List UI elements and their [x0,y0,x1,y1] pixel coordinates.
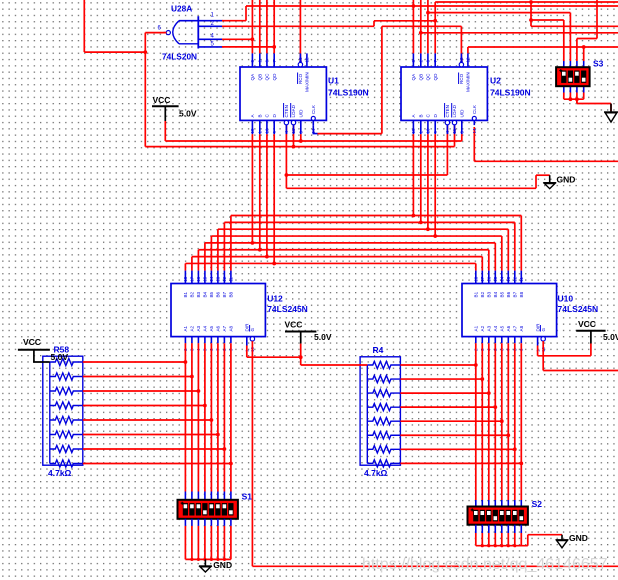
svg-text:11: 11 [452,128,457,133]
junction [433,234,437,238]
resistor network R58 4.7k [43,356,83,465]
svg-text:VCC: VCC [578,319,596,329]
S1 bottom pin stubs [185,519,231,526]
svg-text:A1: A1 [183,325,188,331]
junction [500,544,503,547]
ground GND2 below S1 [199,559,212,572]
wire bus right drop 6 [488,250,490,271]
wire bus left drop 4 [210,236,212,271]
wire bus right drop 7 [481,257,483,271]
wire bus left drop 8 [184,263,186,270]
junction [190,558,193,561]
wire gate pin1 [222,20,246,22]
wire U1 U/D stub [300,134,302,141]
svg-text:A2: A2 [480,325,485,331]
svg-text:B8: B8 [519,291,524,297]
wire U10 G to right edge [543,370,618,372]
switch S2 DIP [468,507,528,525]
counter U2 74LS190N [401,67,487,120]
svg-text:B: B [419,114,424,117]
svg-text:B6: B6 [216,291,221,297]
svg-text:CTEN: CTEN [284,105,289,118]
wire [83,390,199,392]
wire [367,390,400,397]
svg-text:RCO: RCO [298,73,303,84]
svg-text:74LS190N: 74LS190N [490,88,531,98]
junction U2 QB [419,31,423,35]
wire U1 CTEN down [285,125,287,188]
svg-text:11: 11 [291,128,296,133]
svg-text:GND: GND [569,533,588,543]
wire pin1 riser [245,6,247,21]
svg-text:5: 5 [460,131,465,134]
wire VCC4 to U10 DIR [538,355,591,357]
svg-text:QA: QA [411,73,416,81]
junction [487,391,491,395]
wire U10 A7 to S2 [514,343,516,500]
svg-text:QD: QD [272,73,277,81]
svg-text:17: 17 [190,276,195,282]
wire U1 C to bus [266,134,268,257]
wire U2 QD vertical [434,2,436,53]
wire U10 A3 to S2 [488,343,490,500]
svg-text:GND: GND [213,560,232,570]
wire U12 A4 to S1 [204,343,206,491]
wire S3 bottom [583,93,585,100]
svg-text:11: 11 [519,277,524,282]
svg-text:74LS190N: 74LS190N [328,88,369,98]
svg-text:3: 3 [250,60,255,63]
wire bus left drop 6 [197,250,199,271]
U1 pin numbers [250,57,316,134]
wire U2 B to bus [420,134,422,222]
wire U12 A2 to S1 [191,343,193,491]
junction on gate output net [143,50,147,54]
wire [83,405,205,407]
svg-text:R4: R4 [373,345,384,355]
wire gate output vertical [144,33,146,147]
U10 pin stubs [476,271,546,346]
wire bus right drop 5 [494,243,496,271]
svg-text:6: 6 [426,60,431,63]
svg-text:VCC: VCC [23,337,41,347]
wire [400,364,475,366]
wire S2 pin to ground bus [501,533,503,546]
wire [83,448,225,450]
ground GND4 near S3 [604,104,618,123]
junction [426,227,430,231]
svg-text:G: G [250,328,255,332]
svg-text:9: 9 [433,131,438,134]
wire S3 pin1 drop [563,20,565,61]
wire into GND [610,104,612,112]
U10 pin numbers [474,276,546,352]
wire U2 CTEN down [446,125,448,175]
svg-text:U12: U12 [267,294,283,304]
wire U10 A1 to S2 [475,343,477,500]
wire S1 pin to ground bus [197,526,199,560]
wire U1 A to bus [251,134,253,243]
wire from top edge down at x=84 [83,0,85,52]
wire riser at x=531 [530,2,532,26]
ground GND3 right of S2 [556,535,569,548]
svg-text:B4: B4 [493,291,498,297]
junction [184,360,188,364]
wire [50,402,83,409]
wire S3 bottom [569,93,571,100]
wire bus right drop 3 [507,229,509,270]
svg-text:16: 16 [196,276,201,282]
svg-text:A1: A1 [474,325,479,331]
wire U1 RCO to top edge [299,0,301,62]
svg-text:5.0V: 5.0V [51,352,69,362]
svg-text:MAX/MIN: MAX/MIN [305,72,310,92]
wire U12 A6 to S1 [217,343,219,491]
wire pin2 step [373,21,375,27]
junction [494,544,497,547]
junction U2 QA [412,4,416,8]
wire U2 RCO vertical [460,26,462,62]
svg-text:13: 13 [298,57,303,63]
wire to S3 pin3 [577,38,597,40]
svg-text:A2: A2 [190,325,195,331]
wire to gate output bubble [145,32,166,34]
wire S1 ground bus [185,558,231,560]
wire U12 DIR to VCC3 [247,356,301,358]
wire [576,99,578,103]
wire U12 A1 to S1 [184,343,186,491]
svg-text:15: 15 [411,128,416,134]
svg-text:U2: U2 [490,76,501,86]
junction [513,447,517,451]
svg-text:12: 12 [466,57,471,63]
svg-text:6: 6 [265,60,270,63]
svg-text:74LS20N: 74LS20N [162,52,197,62]
wire [198,38,222,40]
wire S2 pin to ground bus [494,533,496,546]
wire pin1 net to right edge [246,5,618,7]
wire S2 pin to ground bus [507,533,509,546]
svg-text:B2: B2 [190,291,195,297]
U2 pin stubs and bubbles [413,53,476,134]
wire bus left drop 7 [191,257,193,271]
wire [198,25,222,27]
wire U10 A6 to S2 [507,343,509,500]
wire cascade to U1 CLK [318,133,382,135]
wire U10 A4 to S2 [494,343,496,500]
wire U2 LOAD stub [454,125,456,147]
U1 pin stubs and bubbles [252,53,315,134]
wire [50,445,83,452]
wire LOAD rail y=146.6 [145,146,454,148]
wire into GND1 [536,174,550,176]
junction [216,433,220,437]
U12 pin numbers [183,276,255,352]
wire to S3 pin1 [531,19,564,21]
junction [203,404,207,408]
junction [419,220,423,224]
wire U1 QD to top edge [273,0,275,53]
junction [229,462,233,466]
svg-text:S1: S1 [242,492,253,502]
svg-text:14: 14 [500,276,505,282]
wire [198,46,222,48]
wire U1 QC to top edge [266,0,268,53]
svg-text:2: 2 [258,60,263,63]
wire VCC4 down [590,344,592,356]
wire [83,463,231,465]
wire S1 pin to ground bus [210,526,212,560]
junction U1 CTEN [285,173,289,177]
wire from VCC1 down [164,121,166,141]
svg-text:5.0V: 5.0V [179,109,197,119]
wire bus line 4 [211,235,501,237]
wire [367,404,400,411]
wire S1 pin to ground bus [204,526,206,560]
svg-text:A7: A7 [513,325,518,331]
wire CTEN rail y=175 [286,174,447,176]
power VCC1 5.0V [152,106,179,121]
wire [367,361,400,368]
wire bus left drop 3 [217,229,219,270]
wire VCC3 to R4 [301,364,368,366]
switch S3 pin stubs [564,61,584,93]
wire [400,392,488,394]
svg-text:LOAD: LOAD [452,104,457,117]
wire U2 MAXMIN riser [467,47,469,53]
U10 internal pin labels [474,291,546,331]
junction U2 QC [426,11,430,15]
svg-text:13: 13 [506,276,511,282]
wire [367,460,400,467]
wire S2 pin to ground bus [481,533,483,546]
svg-text:https://blog.csdn.net/qq_46146: https://blog.csdn.net/qq_46146657 [362,556,608,573]
svg-text:13: 13 [216,276,221,282]
wire U2 QD net to right edge [435,1,618,3]
wire S2 ground bus [476,545,528,547]
wire [34,361,50,362]
junction [223,558,226,561]
junction [258,248,262,252]
wire gate pin2 [222,25,374,27]
svg-text:VCC: VCC [153,95,171,105]
svg-text:10: 10 [265,128,270,134]
svg-text:A7: A7 [222,325,227,331]
svg-text:9: 9 [272,131,277,134]
wire U12 DIR down [246,346,248,358]
wire bus line 8 [185,262,475,264]
wire S2 pin to ground bus [475,533,477,546]
wire [83,434,218,436]
wire bus left drop 2 [223,222,225,270]
power VCC3 5.0V near U12 [285,332,316,344]
resistor network R4 4.7k [360,357,400,465]
wire bus right drop 1 [520,216,522,271]
wire to right edge y=26 [531,25,618,27]
svg-text:14: 14 [209,276,214,282]
svg-text:VCC: VCC [285,320,303,330]
svg-text:A4: A4 [203,325,208,331]
junction S3 pin4 [582,45,586,49]
svg-text:B5: B5 [500,291,505,297]
svg-text:DIR: DIR [245,323,250,332]
svg-text:15: 15 [203,276,208,282]
wire U12 A8 to S1 [230,343,232,491]
wire U2 A to bus [412,134,414,215]
svg-text:QB: QB [258,74,263,81]
wire [400,462,521,464]
svg-text:B8: B8 [229,291,234,297]
svg-text:U/D: U/D [299,109,304,118]
wire S2 pin to ground bus [514,533,516,546]
svg-text:A8: A8 [519,325,524,331]
wire U2 U/D stub [461,134,463,141]
wire U12 A5 to S1 [210,343,212,491]
svg-text:4.7kΩ: 4.7kΩ [48,468,72,478]
svg-text:18: 18 [474,276,479,282]
svg-text:S2: S2 [532,499,543,509]
svg-text:5.0V: 5.0V [603,332,618,342]
U12 internal pin labels [183,291,255,331]
svg-text:7: 7 [433,60,438,63]
R4 common bus [366,365,368,463]
svg-text:1: 1 [419,131,424,134]
svg-text:15: 15 [250,128,255,134]
wire bus right drop 4 [501,236,503,271]
junction [513,544,516,547]
junction [216,558,219,561]
svg-text:15: 15 [493,276,498,282]
junction [190,375,194,379]
wire S1 pin to ground bus [184,526,186,560]
wire [50,373,83,380]
wire S2 pin to ground bus [488,533,490,546]
wire U12 A3 to S1 [197,343,199,491]
wire S3 bottom [576,93,578,104]
wire ground rail step up [535,175,537,188]
wire bus line 3 [218,228,508,230]
wire VCC3 down [300,344,302,365]
svg-text:12: 12 [513,276,518,282]
junction [474,363,478,367]
svg-text:17: 17 [480,276,485,282]
svg-text:GND: GND [557,175,576,185]
junction U2 QD [433,19,437,23]
wire S1 pin to ground bus [217,526,219,560]
svg-text:7: 7 [272,60,277,63]
wire [400,420,501,422]
svg-text:RCO: RCO [459,73,464,84]
svg-text:12: 12 [305,57,310,63]
wire gate pin4 to U1 QA [222,38,252,40]
svg-text:B7: B7 [513,291,518,297]
svg-text:18: 18 [183,276,188,282]
junction [197,389,201,393]
wire VCC rail y=141 [165,140,462,142]
wire bus line 5 [205,242,495,244]
wire U1 QB to top edge [259,0,261,53]
wire U10 A2 to S2 [481,343,483,500]
S2 bottom pin stubs [476,525,522,533]
wire [179,20,223,22]
wire bus left drop 1 [230,216,232,271]
svg-text:U1: U1 [328,76,339,86]
wire S2 to GND3 [528,534,562,536]
junction [481,544,484,547]
wire U2 MAXMIN to right edge [468,46,618,48]
svg-text:B1: B1 [183,291,188,297]
gate U28A 74LS20N 4-input NAND (mirrored) [166,16,198,48]
U12 pin stubs [185,271,254,346]
wire S3 to ground [577,103,611,105]
svg-text:B3: B3 [196,291,201,297]
svg-text:U28A: U28A [171,4,192,14]
wire U2 D to bus [434,134,436,236]
svg-text:4.7kΩ: 4.7kΩ [364,468,388,478]
wire bus line 2 [224,221,514,223]
junction VCC3 [299,355,303,359]
svg-text:74LS245N: 74LS245N [267,304,308,314]
svg-text:LOAD: LOAD [291,104,296,117]
wire [50,416,83,423]
wire [50,431,83,438]
wire RCO cascade horizontal [382,25,462,27]
wire S1 pin to ground bus [191,526,193,560]
svg-text:4: 4 [284,131,289,134]
junction [265,255,269,259]
switch S1 DIP [178,500,238,519]
svg-text:G: G [541,328,546,332]
svg-text:A3: A3 [196,325,201,331]
junction [569,97,573,101]
svg-text:CLK: CLK [472,104,477,114]
wire [400,406,495,408]
wire U10 A5 to S2 [501,343,503,500]
wire [367,446,400,453]
junction [251,241,255,245]
wire U2 CLK down [473,127,475,161]
wire S3 pin3 drop [576,39,578,62]
wire U1 QA to top edge [251,0,253,53]
junction [500,419,504,423]
wire bus line 7 [192,256,482,258]
wire [164,32,167,34]
wire S2 pin to ground bus [520,533,522,546]
wire [50,358,83,365]
wire [50,387,83,394]
svg-text:13: 13 [459,57,464,63]
wire ground rail y=188 [286,187,536,189]
ground GND1 [543,175,556,189]
junction [507,544,510,547]
wire S2 ground step [527,535,529,546]
wire [83,419,212,421]
wire U12 A7 to S1 [223,343,225,491]
wire clock to right edge [474,160,618,162]
svg-text:QA: QA [250,73,255,81]
junction [197,558,200,561]
svg-text:12: 12 [222,276,227,282]
svg-text:MAX/MIN: MAX/MIN [466,72,471,92]
wire S3 bottom bus [564,98,584,100]
wire [400,448,514,450]
junction [210,418,214,422]
wire bus left drop 5 [204,243,206,271]
wire gate pin5 to U1 QD [222,46,274,48]
wire U1 LOAD stub [293,125,295,147]
svg-text:U10: U10 [558,294,574,304]
junction U1 LOAD [292,145,296,149]
